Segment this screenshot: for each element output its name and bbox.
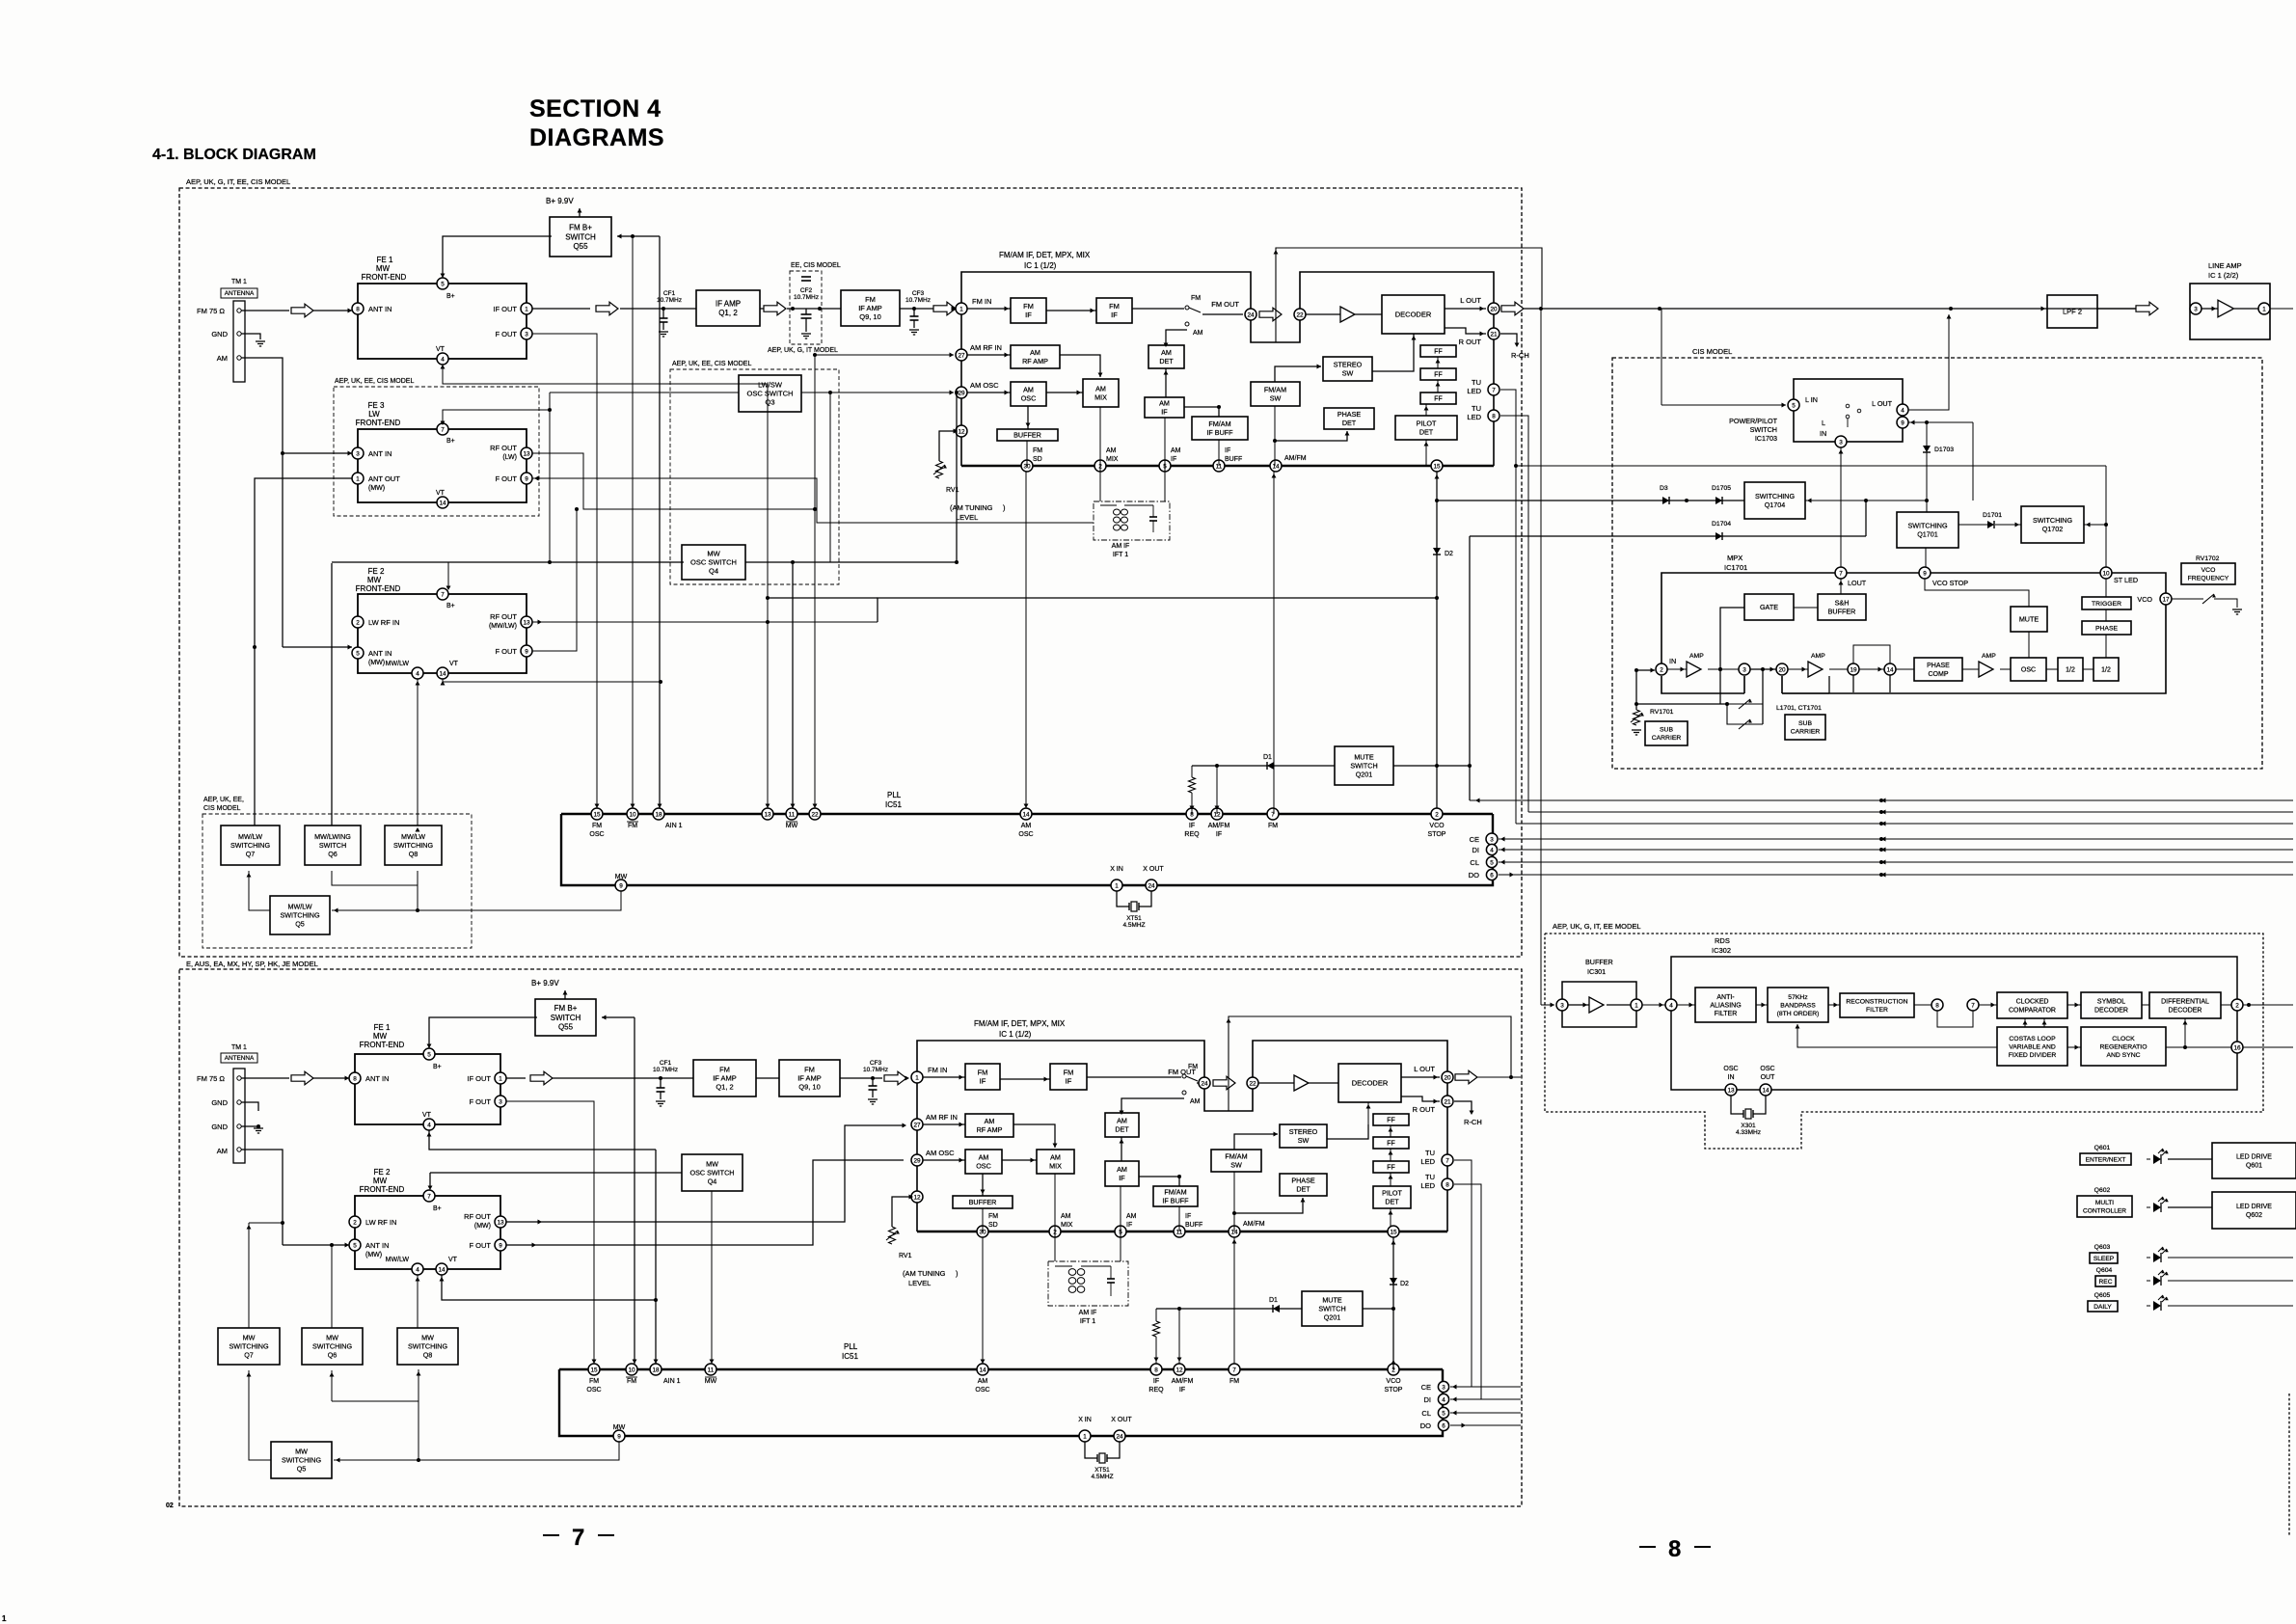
transistor Q1702 SWITCHING bbox=[2021, 506, 2084, 543]
svg-text:MW: MW bbox=[376, 264, 391, 273]
pin 20 (IC1701 row) bbox=[1776, 663, 1788, 675]
svg-text:CIS MODEL: CIS MODEL bbox=[1692, 347, 1732, 356]
svg-text:ANT IN: ANT IN bbox=[365, 1241, 389, 1250]
wire LED Q605 line bbox=[2168, 1305, 2293, 1307]
wire FF chain bbox=[1437, 357, 1439, 368]
svg-text:REC: REC bbox=[2099, 1279, 2113, 1286]
svg-text:IF BUFF: IF BUFF bbox=[1162, 1196, 1189, 1204]
svg-text:OSC: OSC bbox=[2021, 666, 2036, 673]
svg-text:SWITCHING: SWITCHING bbox=[280, 911, 320, 920]
svg-text:12: 12 bbox=[1175, 1367, 1183, 1373]
wire FM/AM SW to pin14 (lower) bbox=[1233, 1172, 1235, 1232]
svg-text:RV1702: RV1702 bbox=[2196, 555, 2220, 562]
svg-text:L IN: L IN bbox=[1805, 395, 1818, 404]
pin 9 (IC1703) bbox=[1897, 417, 1908, 428]
wire long line y=620 bbox=[878, 598, 1437, 622]
block FF1 (upper) bbox=[1420, 345, 1456, 357]
wire FM antenna to FE1 ANT IN bbox=[241, 310, 289, 311]
transistor Q7 MW SWITCHING (lower) bbox=[218, 1328, 280, 1365]
svg-text:FM: FM bbox=[1033, 447, 1042, 454]
pin 30 FM SD (lower) bbox=[977, 1226, 988, 1237]
svg-text:Q6: Q6 bbox=[328, 850, 338, 858]
wire row pin2-amp bbox=[1667, 668, 1687, 670]
svg-text:ENTER/NEXT: ENTER/NEXT bbox=[2086, 1156, 2126, 1163]
svg-text:OSC: OSC bbox=[1018, 831, 1033, 838]
svg-text:2: 2 bbox=[1660, 666, 1663, 673]
wire clock regen to diff decoder bbox=[2183, 1045, 2187, 1049]
svg-text:TU: TU bbox=[1425, 1149, 1435, 1157]
svg-text:AEP, UK, EE,: AEP, UK, EE, bbox=[203, 797, 244, 803]
svg-text:MW: MW bbox=[421, 1334, 434, 1342]
pin 14 VT FE2 lower bbox=[436, 1263, 447, 1275]
svg-text:AEP, UK, EE, CIS MODEL: AEP, UK, EE, CIS MODEL bbox=[672, 361, 751, 367]
svg-text:DET: DET bbox=[1419, 427, 1434, 436]
svg-text:FRONT-END: FRONT-END bbox=[360, 1041, 405, 1049]
svg-text:13: 13 bbox=[523, 619, 530, 626]
wire AM MIX to pin2 (lower) bbox=[1054, 1174, 1056, 1232]
svg-text:AM: AM bbox=[1106, 447, 1117, 454]
pin 4 VT of FE1 bbox=[437, 353, 448, 365]
pin 13 RF OUT FE2 lower bbox=[495, 1216, 506, 1228]
wire pin14 to bottom edge bbox=[1889, 675, 1891, 692]
svg-text:IF: IF bbox=[1171, 456, 1176, 463]
block FM/AM IF BUFF (lower) bbox=[1153, 1186, 1198, 1206]
block half divider 1 (IC1701) bbox=[2058, 658, 2083, 681]
svg-text:8: 8 bbox=[353, 1075, 357, 1082]
amp triangle (lower) bbox=[1258, 1082, 1294, 1084]
wire Q5 feeds (lower) bbox=[334, 1442, 619, 1460]
svg-text:BUFFER: BUFFER bbox=[1585, 958, 1613, 966]
svg-text:(MW/LW): (MW/LW) bbox=[489, 623, 517, 630]
svg-text:10.7MHz: 10.7MHz bbox=[863, 1067, 888, 1073]
wire STEREO SW up to DECODER bbox=[1413, 334, 1415, 357]
svg-text:B+: B+ bbox=[446, 293, 455, 300]
wire AM IF to pin5 (lower) bbox=[1120, 1186, 1121, 1232]
svg-text:15: 15 bbox=[1433, 463, 1441, 470]
block DIFFERENTIAL DECODER bbox=[2142, 1004, 2149, 1006]
pin 2 (IC302) bbox=[2221, 1004, 2231, 1006]
svg-text:VT: VT bbox=[436, 346, 446, 353]
svg-text:LW/SW: LW/SW bbox=[758, 381, 783, 390]
pin 18 AIN 1 (PLL lower) bbox=[650, 1364, 662, 1375]
svg-text:10: 10 bbox=[629, 811, 636, 818]
svg-text:DET: DET bbox=[1296, 1184, 1310, 1193]
svg-text:DET: DET bbox=[1159, 357, 1174, 365]
svg-text:L OUT: L OUT bbox=[1460, 296, 1481, 305]
wire AM MIX to pin2 bbox=[1099, 407, 1101, 466]
svg-text:MW/LW: MW/LW bbox=[386, 661, 410, 667]
svg-text:E, AUS, EA, MX, HY, SP, HK, JE: E, AUS, EA, MX, HY, SP, HK, JE MODEL bbox=[186, 960, 318, 968]
LED Q602 bbox=[2153, 1203, 2161, 1212]
svg-text:LW: LW bbox=[368, 410, 380, 419]
pin 21 R OUT (IC1 lower) bbox=[1442, 1096, 1453, 1107]
pin 2 VCO STOP (PLL upper) bbox=[1431, 808, 1443, 820]
wire GND to ground (lower) bbox=[241, 1102, 258, 1111]
svg-text:S&H: S&H bbox=[1835, 599, 1850, 608]
wire AM IF to IF BUFF (lower) bbox=[1139, 1177, 1179, 1186]
wire B+ to FM B+ switch Q55 bbox=[579, 208, 581, 217]
block STEREO SW (upper) bbox=[1323, 357, 1372, 381]
svg-text:MW: MW bbox=[613, 1424, 626, 1431]
svg-text:FF: FF bbox=[1434, 371, 1443, 378]
svg-text:7: 7 bbox=[1971, 1002, 1975, 1009]
block FF1 (lower) bbox=[1373, 1114, 1409, 1125]
svg-text:LOUT: LOUT bbox=[1848, 579, 1867, 587]
pin 24 X OUT (PLL lower) bbox=[1114, 1430, 1125, 1442]
svg-text:MW: MW bbox=[367, 576, 382, 584]
svg-text:29: 29 bbox=[913, 1157, 921, 1164]
svg-text:OSC SWITCH: OSC SWITCH bbox=[690, 1169, 735, 1177]
svg-text:14: 14 bbox=[1022, 811, 1030, 818]
svg-text:IF: IF bbox=[1153, 1378, 1159, 1385]
box MULTI CONTROLLER bbox=[2077, 1196, 2132, 1217]
wire pin16 out bbox=[2243, 1046, 2293, 1048]
diode D1703 bbox=[1926, 422, 1928, 501]
svg-text:IF AMP: IF AMP bbox=[713, 1074, 737, 1083]
svg-text:AEP, UK, G, IT MODEL: AEP, UK, G, IT MODEL bbox=[768, 347, 838, 354]
pin 5 CL (PLL lower) bbox=[1438, 1407, 1448, 1418]
wire AM DET to switch bbox=[1166, 330, 1187, 345]
wire pin12 line down (upper) bbox=[1216, 766, 1218, 814]
svg-text:ANT OUT: ANT OUT bbox=[368, 474, 400, 483]
svg-text:7: 7 bbox=[1445, 1157, 1449, 1164]
svg-text:1/2: 1/2 bbox=[2101, 666, 2111, 673]
svg-text:SWITCH: SWITCH bbox=[1350, 762, 1377, 771]
pin 2 LW RF IN of FE2 bbox=[352, 616, 364, 628]
pin 16 (IC302) bbox=[2166, 1046, 2231, 1048]
svg-text:FM IN: FM IN bbox=[972, 297, 991, 306]
svg-text:IC 1 (2/2): IC 1 (2/2) bbox=[2208, 271, 2239, 280]
wire TU LED7 to line C bbox=[1500, 390, 1516, 466]
pin 14 OSC OUT (IC302) bbox=[1760, 1084, 1771, 1096]
LED Q605 bbox=[2153, 1301, 2161, 1311]
wire FM/AM SW to STEREO SW bbox=[1275, 366, 1321, 382]
svg-text:SD: SD bbox=[1033, 456, 1042, 463]
block AM IF (lower) bbox=[1105, 1161, 1139, 1186]
svg-text:VCO: VCO bbox=[2137, 595, 2152, 604]
svg-text:COSTAS LOOP: COSTAS LOOP bbox=[2009, 1036, 2056, 1042]
wire IC1703 pin3 from MPX pin7 bbox=[1840, 447, 1842, 567]
svg-text:IF OUT: IF OUT bbox=[493, 305, 517, 313]
block FF2 (lower) bbox=[1373, 1137, 1409, 1149]
wire switching line y=556 (D1704) bbox=[1470, 535, 1866, 537]
block FM IF AMP Q9,10 (lower) bbox=[756, 1077, 779, 1079]
pin 22 (IC1 upper) bbox=[1294, 309, 1306, 320]
svg-text:AM: AM bbox=[1193, 330, 1203, 337]
pin 9 MW (PLL upper) bbox=[615, 880, 627, 891]
svg-text:4: 4 bbox=[416, 1266, 419, 1273]
svg-text:FILTER: FILTER bbox=[1715, 1011, 1738, 1017]
svg-text:CLOCK: CLOCK bbox=[2112, 1036, 2135, 1042]
svg-text:D1704: D1704 bbox=[1712, 521, 1731, 528]
svg-text:FM/AM: FM/AM bbox=[1208, 420, 1230, 428]
svg-text:14: 14 bbox=[1886, 666, 1894, 673]
svg-text:STOP: STOP bbox=[1385, 1387, 1403, 1394]
wire pin9 to MUTE bbox=[1925, 579, 2029, 607]
wire DI line (lower) bbox=[1450, 1398, 1521, 1400]
svg-text:BUFFER: BUFFER bbox=[969, 1198, 997, 1206]
transistor Q7 MW/LW SWITCHING (upper) bbox=[221, 826, 280, 865]
wire IC1703 pin9 junction bbox=[1908, 421, 1927, 423]
svg-text:10.7MHz: 10.7MHz bbox=[653, 1067, 678, 1073]
svg-text:FM: FM bbox=[865, 295, 876, 304]
svg-text:MIX: MIX bbox=[1049, 1161, 1062, 1170]
pin 7 B+ FE2 lower bbox=[423, 1190, 435, 1202]
wire FM IN to FM IF bbox=[967, 308, 1011, 310]
pin 3 ANT IN of FE3 bbox=[352, 447, 364, 459]
svg-text:FM: FM bbox=[627, 1378, 636, 1385]
svg-text:9: 9 bbox=[525, 475, 528, 482]
svg-text:AM: AM bbox=[1061, 1213, 1071, 1220]
svg-text:MW/LW: MW/LW bbox=[287, 903, 311, 911]
amp triangle after pin 22 (upper) bbox=[1306, 313, 1340, 315]
wire FE2 B+ feed from Q4 line bbox=[332, 561, 684, 563]
block AM RF AMP (upper) bbox=[1011, 345, 1060, 368]
wire pin29 to AM OSC bbox=[967, 392, 1011, 393]
svg-text:(MW): (MW) bbox=[365, 1252, 382, 1259]
svg-text:02: 02 bbox=[166, 1502, 174, 1509]
svg-text:OUT: OUT bbox=[1761, 1074, 1776, 1081]
pin 5 ANT IN (MW) of FE2 bbox=[352, 647, 364, 659]
block FM/AM IF BUFF (upper) bbox=[1192, 417, 1248, 440]
page number 7 bbox=[543, 1534, 559, 1536]
svg-text:Q602: Q602 bbox=[2246, 1212, 2262, 1219]
svg-text:8: 8 bbox=[1935, 1002, 1939, 1009]
wire AM DET down to AM IF bbox=[1165, 368, 1167, 397]
pin 6 DO (PLL upper) bbox=[1486, 869, 1497, 880]
pin 5 ANT IN FE2 lower bbox=[349, 1239, 361, 1251]
block BUFFER (upper) bbox=[997, 429, 1058, 441]
pin 1 X IN (PLL upper) bbox=[1111, 880, 1122, 891]
wire IF BUFF to pin11 (lower) bbox=[1178, 1206, 1180, 1232]
svg-text:AMP: AMP bbox=[1689, 653, 1704, 660]
wire Q4 right to PLL pin11 bbox=[745, 561, 957, 563]
wire IC1 pin30 down to PLL pin14 (lower) bbox=[982, 1237, 984, 1364]
svg-text:3: 3 bbox=[356, 450, 360, 457]
wire LED Q603 line bbox=[2168, 1257, 2293, 1259]
svg-text:F OUT: F OUT bbox=[470, 1241, 492, 1250]
svg-text:OSC SWITCH: OSC SWITCH bbox=[690, 558, 737, 567]
svg-text:Q9, 10: Q9, 10 bbox=[798, 1083, 821, 1092]
svg-text:3: 3 bbox=[1742, 666, 1746, 673]
svg-text:IF: IF bbox=[1185, 1213, 1191, 1220]
svg-text:3: 3 bbox=[1839, 439, 1843, 446]
svg-text:TM 1: TM 1 bbox=[231, 279, 247, 285]
svg-text:FM: FM bbox=[592, 823, 602, 829]
pin 1 IF OUT of FE1 bbox=[521, 303, 532, 314]
svg-text:MUTE: MUTE bbox=[2019, 615, 2039, 624]
wire B+ arrow (lower) bbox=[564, 990, 566, 999]
svg-text:FM/AM: FM/AM bbox=[1264, 386, 1286, 394]
block FF3 (lower) bbox=[1373, 1161, 1409, 1173]
pin 19 (IC1701 row) bbox=[1848, 663, 1859, 675]
wire mute to VCO vertical (lower) bbox=[1363, 1308, 1393, 1310]
svg-text:FE 2: FE 2 bbox=[368, 567, 385, 576]
pin 1 IF OUT FE1 lower bbox=[495, 1072, 506, 1084]
svg-text:Q601: Q601 bbox=[2094, 1145, 2111, 1151]
svg-text:PHASE: PHASE bbox=[1337, 410, 1362, 419]
pin 4 VT FE1 lower bbox=[423, 1119, 435, 1130]
svg-text:FM IN: FM IN bbox=[928, 1066, 947, 1074]
wire GATE feed bbox=[1720, 608, 1744, 669]
wire S&H to pin7 bbox=[1840, 579, 1842, 594]
pin 13 RF OUT (LW) of FE3 bbox=[521, 447, 532, 459]
svg-text:12: 12 bbox=[913, 1194, 921, 1201]
svg-text:FREQUENCY: FREQUENCY bbox=[2188, 576, 2229, 582]
block PHASE (IC1701) bbox=[2082, 621, 2131, 635]
svg-text:SUB: SUB bbox=[1798, 720, 1812, 727]
pin 9 F OUT of FE3 bbox=[521, 473, 532, 484]
svg-text:FM 75 Ω: FM 75 Ω bbox=[197, 307, 225, 315]
svg-text:AM: AM bbox=[1190, 1098, 1201, 1105]
svg-text:AEP, UK, EE, CIS MODEL: AEP, UK, EE, CIS MODEL bbox=[335, 378, 414, 385]
svg-text:FM: FM bbox=[1064, 1069, 1074, 1077]
svg-text:B+: B+ bbox=[446, 438, 455, 445]
transistor Q5 MW/LW SWITCHING (upper) bbox=[270, 896, 330, 934]
svg-text:9: 9 bbox=[1901, 420, 1904, 426]
svg-text:Q5: Q5 bbox=[297, 1464, 307, 1473]
wire IC301 to IC302 bbox=[1642, 1004, 1665, 1006]
amp triangle 3 (IC1701) bbox=[1962, 668, 1979, 670]
svg-text:RF OUT: RF OUT bbox=[490, 612, 517, 621]
loop pins 8-7 bbox=[1937, 1011, 1973, 1027]
svg-text:20: 20 bbox=[1444, 1074, 1451, 1081]
pin 15 (IC1 upper) bbox=[1431, 460, 1443, 472]
pin 1 LINE AMP bbox=[2234, 308, 2258, 310]
svg-text:SUB: SUB bbox=[1660, 727, 1673, 734]
svg-text:SWITCH: SWITCH bbox=[551, 1014, 581, 1022]
wire AM OSC to AM MIX (lower) bbox=[1002, 1159, 1037, 1161]
svg-text:TU: TU bbox=[1425, 1173, 1435, 1181]
svg-text:Q605: Q605 bbox=[2094, 1292, 2111, 1299]
svg-text:L1701, CT1701: L1701, CT1701 bbox=[1776, 705, 1822, 712]
svg-text:AEP, UK, G, IT, EE, CIS MODEL: AEP, UK, G, IT, EE, CIS MODEL bbox=[186, 177, 290, 186]
svg-text:GATE: GATE bbox=[1760, 603, 1778, 611]
resistor RV1 (lower) bbox=[892, 1197, 911, 1227]
wire pin27 to AM RF AMP (lower) bbox=[923, 1123, 965, 1125]
wire DO line (lower) bbox=[1450, 1424, 1521, 1426]
wire Q1702 right to ST LED vertical bbox=[2084, 524, 2106, 526]
pin 4 MW/LW FE2 lower bbox=[412, 1263, 423, 1275]
pin 14 VT of FE3 bbox=[437, 497, 448, 508]
pin 20 L OUT (IC1 upper) bbox=[1488, 303, 1499, 314]
svg-text:21: 21 bbox=[1444, 1098, 1451, 1105]
pin 1 (IC301) bbox=[1607, 1004, 1631, 1006]
svg-text:2: 2 bbox=[356, 619, 360, 626]
wire BUFFER to pin30 bbox=[1026, 441, 1028, 466]
wire amp to decoder bbox=[1355, 313, 1382, 315]
wire Q3 to IC1 pin29 AM OSC bbox=[801, 392, 954, 393]
pin 3 (IC1703) bbox=[1835, 436, 1847, 447]
svg-text:(8TH ORDER): (8TH ORDER) bbox=[1777, 1011, 1820, 1017]
svg-text:DECODER: DECODER bbox=[1395, 311, 1432, 319]
svg-text:AM: AM bbox=[1030, 348, 1040, 357]
pin 4 DI (PLL lower) bbox=[1438, 1394, 1448, 1404]
pin 8 IF REQ (PLL upper) bbox=[1186, 808, 1198, 820]
svg-text:XT51: XT51 bbox=[1126, 915, 1142, 922]
switch FM/AM (lower IC1) bbox=[1087, 1076, 1181, 1078]
wire AM OSC to BUFFER bbox=[1027, 406, 1029, 429]
svg-text:FM: FM bbox=[1191, 295, 1201, 302]
pin 7 L OUT (IC1701) bbox=[1835, 567, 1847, 579]
svg-text:IC302: IC302 bbox=[1712, 946, 1731, 955]
pin 3 CE (PLL lower) bbox=[1438, 1381, 1448, 1392]
svg-text:(LW): (LW) bbox=[502, 454, 517, 461]
svg-text:AM: AM bbox=[979, 1153, 989, 1162]
svg-text:FF: FF bbox=[1387, 1164, 1395, 1171]
svg-text:MW: MW bbox=[243, 1334, 256, 1342]
svg-text:MW: MW bbox=[615, 874, 628, 880]
vertical to RDS buffer bbox=[1540, 309, 1542, 1005]
block SYMBOL DECODER bbox=[2067, 1004, 2081, 1006]
wire FE3 F OUT bbox=[532, 478, 1094, 523]
svg-text:2: 2 bbox=[2235, 1002, 2239, 1009]
wire FM IF1 to FM IF2 bbox=[1046, 310, 1096, 311]
svg-text:7: 7 bbox=[1839, 570, 1843, 577]
wire costas to comparator arrows bbox=[2024, 1018, 2026, 1027]
capacitor CF3 10.7MHz (upper) bbox=[900, 308, 935, 310]
svg-text:15: 15 bbox=[1390, 1229, 1397, 1235]
svg-text:CONTROLLER: CONTROLLER bbox=[2083, 1207, 2126, 1214]
wire pin2 out bbox=[2243, 1004, 2293, 1006]
svg-text:1/2: 1/2 bbox=[2066, 666, 2075, 673]
wire AM antenna down (lower) bbox=[241, 1150, 283, 1245]
svg-text:MW: MW bbox=[706, 1160, 718, 1169]
svg-text:22: 22 bbox=[811, 811, 819, 818]
svg-text:FRONT-END: FRONT-END bbox=[356, 419, 401, 427]
svg-text:SWITCHING: SWITCHING bbox=[1755, 492, 1796, 501]
block AM OSC (lower) bbox=[965, 1150, 1002, 1174]
svg-text:AM: AM bbox=[1023, 386, 1034, 394]
pin 22 (PLL upper) bbox=[809, 808, 821, 820]
pin 5 B+ FE1 lower bbox=[423, 1048, 435, 1060]
svg-text:SW: SW bbox=[1342, 368, 1354, 377]
wire decoder L OUT bbox=[1445, 308, 1486, 310]
svg-text:CF1: CF1 bbox=[660, 1060, 672, 1067]
wire AM IF to pin5 bbox=[1164, 418, 1166, 466]
svg-text:IC51: IC51 bbox=[842, 1352, 858, 1361]
box FM IF #1 (upper) bbox=[1011, 298, 1046, 323]
svg-text:DAILY: DAILY bbox=[2093, 1304, 2112, 1311]
block AM MIX (upper) bbox=[1083, 379, 1119, 407]
box FM IF #2 (upper) bbox=[1096, 298, 1132, 323]
wire VCO pin17 to trimmer bbox=[2172, 598, 2203, 600]
svg-text:(MW): (MW) bbox=[368, 485, 385, 492]
wire LPF2 gap fix bbox=[2097, 308, 2136, 310]
box REC bbox=[2095, 1276, 2116, 1286]
wire Q55 to FE1 B+ (lower) bbox=[429, 1017, 537, 1048]
svg-text:3: 3 bbox=[499, 1098, 502, 1105]
svg-text:3: 3 bbox=[525, 331, 528, 338]
pin 13 RF OUT (MW/LW) of FE2 bbox=[521, 616, 532, 628]
svg-text:9: 9 bbox=[499, 1242, 502, 1249]
pin 13 (PLL upper) bbox=[762, 808, 773, 820]
block ANTI-ALIASING FILTER bbox=[1695, 988, 1756, 1022]
wire FM antenna to FE1 (lower) bbox=[241, 1077, 289, 1079]
wire CE line (lower) bbox=[1450, 1386, 1521, 1388]
switch FM/AM (upper IC1) bbox=[1132, 308, 1184, 310]
svg-text:IF: IF bbox=[1225, 447, 1230, 454]
svg-text:20: 20 bbox=[1490, 306, 1498, 312]
pin 12 AM/FM IF (PLL upper) bbox=[1211, 808, 1223, 820]
svg-text:B+ 9.9V: B+ 9.9V bbox=[531, 979, 559, 988]
dashed frame AEP,UK,G,IT,EE MODEL (RDS) bbox=[1545, 934, 2263, 1149]
svg-text:CL: CL bbox=[1470, 858, 1479, 867]
block 57KHz BANDPASS bbox=[1768, 988, 1828, 1022]
svg-text:14: 14 bbox=[439, 670, 446, 677]
pin 12 (IC1 lower) bbox=[911, 1191, 923, 1203]
svg-text:10.7MHz: 10.7MHz bbox=[905, 297, 931, 304]
